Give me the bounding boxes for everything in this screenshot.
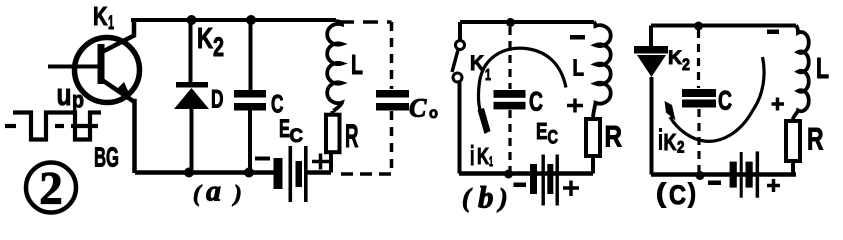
- svg-text:C: C: [548, 128, 559, 149]
- svg-text:o: o: [429, 105, 438, 122]
- svg-text:): ): [688, 178, 696, 208]
- svg-text:R: R: [807, 121, 824, 157]
- svg-text:L: L: [816, 53, 829, 85]
- svg-text:(: (: [656, 178, 666, 208]
- svg-text:R: R: [345, 118, 359, 154]
- svg-text:2: 2: [213, 32, 224, 62]
- svg-text:C: C: [718, 86, 732, 116]
- svg-text:i: i: [470, 140, 475, 171]
- svg-text:(: (: [193, 181, 203, 206]
- svg-text:E: E: [536, 118, 548, 144]
- svg-text:): ): [497, 184, 508, 213]
- svg-text:1: 1: [485, 67, 491, 84]
- svg-text:K: K: [197, 23, 213, 55]
- svg-text:K: K: [477, 143, 489, 169]
- svg-text:L: L: [351, 49, 363, 80]
- svg-text:(: (: [462, 184, 473, 213]
- svg-text:a: a: [206, 175, 221, 208]
- svg-text:BG: BG: [94, 142, 119, 173]
- svg-text:1: 1: [489, 153, 493, 169]
- svg-text:L: L: [573, 55, 585, 81]
- svg-text:K: K: [664, 129, 677, 155]
- svg-text:b: b: [478, 180, 494, 215]
- svg-text:D: D: [211, 86, 224, 114]
- svg-text:2: 2: [39, 163, 63, 215]
- svg-text:C: C: [529, 87, 543, 117]
- svg-text:2: 2: [677, 138, 685, 157]
- svg-text:K: K: [93, 1, 108, 31]
- svg-text:1: 1: [108, 13, 114, 34]
- svg-text:R: R: [605, 121, 623, 154]
- svg-text:E: E: [279, 115, 290, 143]
- svg-text:u: u: [57, 77, 72, 112]
- svg-text:): ): [232, 181, 242, 206]
- svg-text:C: C: [290, 125, 304, 147]
- svg-text:i: i: [658, 125, 663, 157]
- svg-text:p: p: [72, 87, 84, 113]
- svg-text:C: C: [409, 94, 427, 123]
- svg-text:2: 2: [682, 56, 690, 74]
- svg-text:C: C: [669, 180, 686, 210]
- svg-text:K: K: [668, 47, 682, 69]
